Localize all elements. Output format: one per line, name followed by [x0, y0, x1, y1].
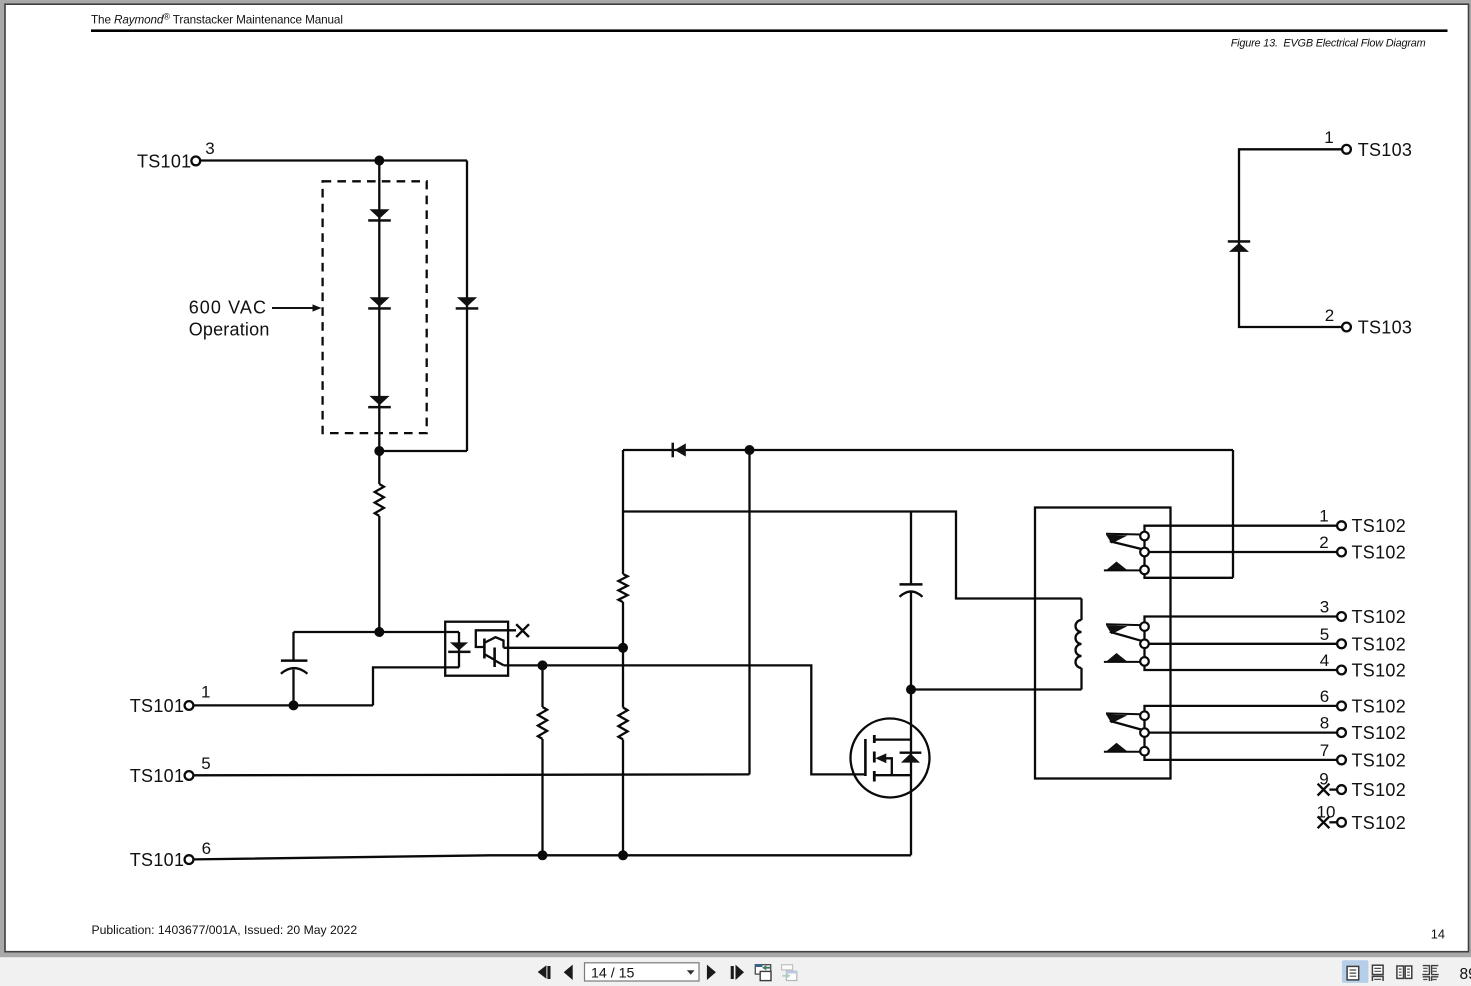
- svg-text:10: 10: [1317, 802, 1336, 821]
- svg-text:6: 6: [202, 839, 211, 858]
- wire bottom link of bypass: [379, 450, 467, 452]
- wire coil bottom return: [911, 688, 1082, 690]
- resistor R3: [538, 707, 547, 739]
- svg-text:3: 3: [1320, 598, 1329, 617]
- terminal TS103-1: [1342, 145, 1351, 154]
- capacitor C2: [900, 583, 923, 586]
- wire riser x749: [748, 450, 750, 774]
- diode D3: [368, 396, 391, 409]
- svg-text:5: 5: [1320, 625, 1329, 644]
- wire left bus x623 upper: [622, 450, 624, 574]
- header rule: [91, 29, 1448, 32]
- contact group 1 NO marker: [1106, 562, 1128, 571]
- contact group 2 poles: [1140, 622, 1149, 631]
- svg-text:TS102: TS102: [1352, 661, 1407, 681]
- MOSFET channel dashes: [873, 735, 876, 782]
- svg-text:1: 1: [1324, 128, 1333, 147]
- svg-text:4: 4: [1320, 651, 1329, 670]
- contact group 3 pole links: [1143, 720, 1145, 747]
- svg-text:TS102: TS102: [1352, 607, 1407, 627]
- contact group 3 wires: [1145, 706, 1337, 712]
- svg-text:TS102: TS102: [1352, 543, 1407, 563]
- node junction (911,689.5): [906, 685, 916, 695]
- MOSFET Q1 circle: [851, 719, 930, 798]
- toolbar: first-page button: [538, 965, 547, 978]
- contact group 3 poles: [1140, 711, 1149, 720]
- toolbar: last-page button: [731, 966, 734, 979]
- svg-text:1: 1: [201, 682, 210, 701]
- svg-text:89: 89: [1460, 966, 1471, 983]
- wire diode-string vertical: [378, 161, 380, 452]
- diode D2: [368, 297, 391, 310]
- svg-text:TS101: TS101: [130, 850, 185, 870]
- svg-text:14 / 15: 14 / 15: [591, 966, 634, 982]
- annotation arrow: [272, 307, 314, 309]
- svg-text:TS102: TS102: [1352, 723, 1407, 743]
- diode D6: [1228, 240, 1250, 252]
- terminal TS101 pin 1: [185, 701, 194, 710]
- MOSFET gate bar: [864, 739, 867, 776]
- wire mid bus y511: [623, 512, 1082, 599]
- toolbar: facing layout icon: [1397, 966, 1404, 978]
- opto T2 emitter: [495, 661, 504, 666]
- resistor R2: [618, 574, 627, 602]
- contact group 3 NO marker: [1106, 743, 1128, 752]
- svg-text:TS102: TS102: [1352, 750, 1407, 770]
- svg-text:TS102: TS102: [1352, 780, 1407, 800]
- terminal circles TS102: [1337, 521, 1346, 530]
- contact group 1 pole links: [1143, 540, 1145, 566]
- node junction (379,451): [374, 446, 384, 456]
- wire top bus: [623, 449, 1233, 451]
- wire x623 lower: [622, 740, 624, 856]
- relay coil leads: [1080, 599, 1082, 690]
- wire riser from contact1 to top bus: [1232, 450, 1234, 578]
- TS103 branch wires: [1239, 149, 1342, 327]
- svg-text:2: 2: [1325, 306, 1334, 325]
- svg-text:The Raymond® Transtacker Maint: The Raymond® Transtacker Maintenance Man…: [91, 11, 343, 26]
- svg-text:2: 2: [1319, 533, 1328, 552]
- diode D5: [672, 443, 686, 458]
- wire TS101-1 horizontal: [194, 704, 373, 706]
- wire R1 to node: [378, 516, 380, 632]
- svg-text:Publication: 1403677/001A, Iss: Publication: 1403677/001A, Issued: 20 Ma…: [92, 923, 358, 937]
- TS102 labels: [1352, 516, 1407, 833]
- MOSFET drain stub: [874, 738, 911, 740]
- wire emitter out to gate: [504, 665, 866, 774]
- node junction (542.5,855.3): [538, 850, 548, 860]
- svg-text:TS102: TS102: [1352, 813, 1407, 833]
- wire resistor branch x542 upper: [541, 665, 543, 707]
- resistor R1: [375, 484, 384, 516]
- MOSFET body diode: [900, 752, 922, 754]
- svg-text:TS101: TS101: [130, 766, 185, 786]
- wire TS101-5 horizontal: [194, 773, 750, 776]
- toolbar background: [0, 957, 1471, 986]
- opto T1 emitter: [485, 655, 494, 660]
- toolbar: facing-continuous layout icon: [1422, 966, 1438, 981]
- contact group 2 pole links: [1143, 631, 1145, 657]
- terminal TS101 pin 3: [191, 157, 200, 166]
- node junction (379,160): [374, 156, 384, 166]
- opto LED triangle and bar: [448, 642, 470, 653]
- contact group 1 NC marker: [1106, 533, 1140, 536]
- contact group 2 blade: [1110, 632, 1142, 641]
- contact group 1 wires: [1145, 526, 1337, 532]
- TS102-10 X mark: [1318, 816, 1330, 828]
- wire capacitor C1 lower lead: [292, 670, 294, 706]
- diode D4: [456, 297, 479, 310]
- relay K1 box: [1035, 508, 1171, 779]
- MOSFET source stub: [874, 774, 911, 776]
- terminal TS101 pin 5: [185, 771, 194, 780]
- wire TS101-1 step up to LED cathode: [373, 667, 459, 705]
- svg-text:14: 14: [1431, 926, 1445, 941]
- contact group 3 NC marker: [1106, 712, 1140, 715]
- wire collector out: [504, 647, 624, 649]
- wire right bypass branch: [466, 161, 468, 452]
- relay coil K1: [1076, 620, 1082, 668]
- diode D1: [368, 209, 391, 222]
- capacitor C1: [281, 659, 308, 662]
- toolbar: continuous layout icon: [1372, 965, 1383, 974]
- svg-text:7: 7: [1320, 741, 1329, 760]
- svg-text:TS102: TS102: [1352, 516, 1407, 536]
- wire capacitor C2 lower lead: [910, 593, 912, 690]
- contact group 1 blade: [1110, 541, 1142, 549]
- contact group 1 poles: [1140, 532, 1149, 541]
- svg-text:1: 1: [1319, 507, 1328, 526]
- node junction (293.5,705.4): [289, 700, 299, 710]
- node junction (379,632): [374, 627, 384, 637]
- svg-text:TS102: TS102: [1352, 634, 1407, 654]
- node junction (623,855.3): [618, 850, 628, 860]
- opto base lead to unused pin: [476, 630, 516, 647]
- svg-text:TS101: TS101: [130, 696, 185, 716]
- opto T2 base bar: [493, 648, 496, 668]
- MOSFET body arrow: [884, 758, 892, 775]
- toolbar: next-view icon (disabled): [782, 965, 793, 970]
- toolbar: previous-page button: [564, 965, 573, 980]
- toolbar: previous-view icon: [755, 965, 770, 974]
- wire MOSFET drain vertical: [910, 690, 912, 856]
- resistor R4: [618, 708, 627, 740]
- wire TS101-6 horizontal: [194, 855, 911, 859]
- svg-text:TS101: TS101: [137, 151, 192, 171]
- node junction (542.5,665.4): [538, 660, 548, 670]
- svg-text:6: 6: [1320, 687, 1329, 706]
- node junction (749.5,450): [745, 445, 755, 455]
- svg-text:8: 8: [1320, 714, 1329, 733]
- svg-text:9: 9: [1319, 770, 1328, 789]
- terminal TS101 pin 6: [185, 855, 194, 864]
- toolbar: single-page layout (selected): [1342, 960, 1369, 983]
- TS102-9 X mark: [1318, 784, 1330, 796]
- contact group 2 wires: [1145, 617, 1337, 623]
- optocoupler U1 box: [445, 622, 508, 676]
- opto LED vertical: [458, 632, 460, 667]
- unused-pin X mark: [516, 624, 529, 637]
- svg-text:Operation: Operation: [189, 320, 270, 340]
- wire capacitor C1 branch upper: [292, 632, 294, 660]
- wire TS101-3 to diode string: [201, 159, 467, 161]
- svg-text:5: 5: [201, 754, 210, 773]
- svg-text:3: 3: [205, 139, 214, 158]
- contact group 2 NC marker: [1106, 623, 1140, 626]
- toolbar: next-page button: [707, 965, 716, 980]
- wire x623 mid: [622, 602, 624, 708]
- TS102 pin numbers: [1317, 507, 1336, 822]
- opto T1 base bar: [483, 639, 486, 659]
- wire down to resistor R1: [378, 451, 380, 484]
- wire resistor branch x542 lower: [541, 739, 543, 855]
- svg-text:TS102: TS102: [1352, 696, 1407, 716]
- wire capacitor C2 upper lead: [910, 512, 912, 585]
- 600 VAC dashed enclosure: [323, 181, 427, 433]
- svg-text:Figure 13. EVGB Electrical Fl: Figure 13. EVGB Electrical Flow Diagram: [1231, 38, 1426, 50]
- contact group 3 blade: [1110, 721, 1142, 730]
- toolbar: page number box: [585, 963, 700, 981]
- opto T1 collector: [485, 637, 504, 648]
- svg-text:TS103: TS103: [1358, 318, 1413, 338]
- wire node to opto LED anode: [294, 631, 460, 633]
- svg-text:TS103: TS103: [1358, 140, 1413, 160]
- contact group 2 NO marker: [1106, 653, 1128, 662]
- terminal TS103-2: [1342, 323, 1351, 332]
- node junction (623,648): [618, 643, 628, 653]
- svg-text:600 VAC: 600 VAC: [189, 297, 267, 317]
